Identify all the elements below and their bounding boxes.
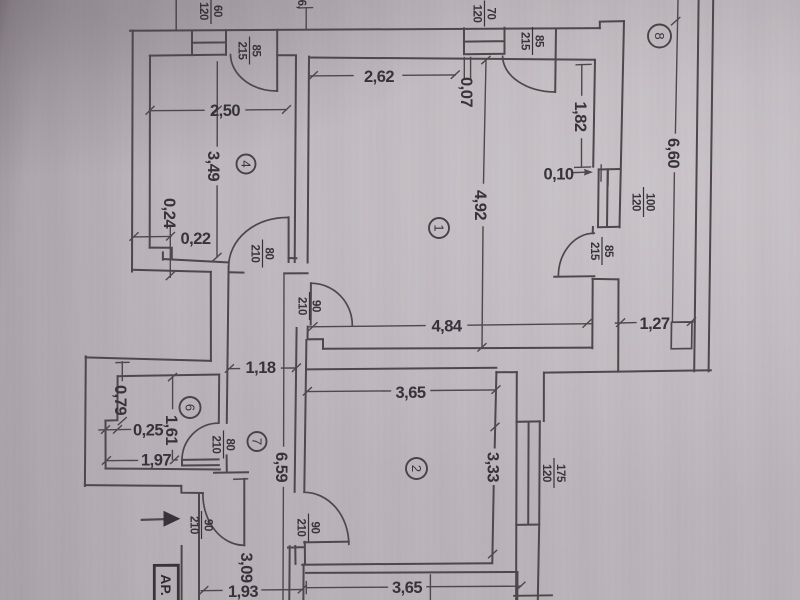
dim 6,59 extension line	[283, 274, 284, 600]
dim 2,50 end ticks	[146, 106, 291, 115]
svg-text:2,50: 2,50	[210, 102, 240, 120]
wire: room4 outer bottom wall	[132, 270, 211, 272]
wire: annex connector wall	[593, 278, 619, 280]
door D1 85/215 top-left: swing arc	[231, 55, 278, 91]
svg-text:90: 90	[202, 519, 214, 531]
wire: long balcony line B	[709, 0, 714, 371]
svg-text:1,27: 1,27	[639, 315, 669, 333]
wire: room2 east wall inner line lower	[492, 486, 493, 563]
wire: corridor east wall inner line	[295, 328, 297, 492]
wire: top-right step up	[600, 21, 624, 28]
wire: bathroom inner west step	[105, 376, 117, 468]
svg-text:120: 120	[197, 2, 209, 20]
door D8 90/210: leaf line	[304, 541, 349, 544]
wire: room 4 inner top wall	[150, 55, 226, 56]
dim 0,10 arrow	[573, 171, 589, 174]
dim 3,65 top line	[307, 390, 496, 392]
door D2 85/215: swing arc	[503, 56, 556, 92]
svg-text:1,93: 1,93	[228, 583, 258, 600]
window label 70/120	[471, 1, 497, 27]
svg-text:90: 90	[309, 522, 321, 534]
wire: room1 west wall outer line	[308, 57, 309, 263]
door label 80/210 room4	[249, 240, 275, 268]
dim 1,18 ticks	[225, 364, 300, 372]
dim 3,65 bottom line	[307, 586, 521, 588]
svg-text:2,62: 2,62	[364, 68, 394, 86]
wire: bathroom outer bottom wall	[85, 484, 181, 487]
dim 1,82 line	[581, 65, 583, 167]
dim 1,27 ticks	[617, 318, 696, 327]
svg-text:6,: 6,	[295, 0, 307, 9]
door label 90/210 room1	[296, 292, 322, 320]
svg-text:4,92: 4,92	[471, 190, 489, 220]
wire: room1 inner top face	[309, 58, 595, 60]
wire: hinge pier below bath door	[226, 455, 228, 472]
dim 3,49 ticks	[213, 106, 221, 260]
door label 85/215 east	[588, 237, 614, 265]
wire: room4 inner bottom wall	[163, 259, 229, 262]
svg-text:215: 215	[519, 32, 531, 51]
door D8 90/210 corridor-to-room2: swing arc	[304, 492, 349, 544]
wire: bottom-right corner drop	[516, 572, 518, 600]
wire: corridor top cap	[284, 272, 307, 274]
svg-text:210: 210	[249, 245, 261, 263]
room number 7 circled	[248, 432, 267, 451]
dim 3,33 ticks on room2 east wall	[489, 423, 499, 558]
wire: shaft east line / corridor west wall	[227, 266, 229, 423]
window W2 70/120 top	[464, 28, 505, 54]
dim 4,84 ticks	[309, 320, 591, 331]
wire: wall pier above window	[543, 373, 545, 421]
room number 6 circled	[180, 397, 201, 418]
window W1 60/120 top-left	[192, 30, 226, 55]
svg-text:6,60: 6,60	[664, 138, 682, 168]
node: column at balcony corner	[671, 322, 692, 349]
wire: bottom wall of right section	[544, 370, 711, 372]
wire: outer wall below window	[516, 525, 539, 600]
dim 0,25 ticks	[102, 426, 122, 434]
room number 2 circled	[406, 458, 427, 479]
wire: room1 west wall inner line	[295, 56, 296, 263]
wire: leaf-to-wall connector	[289, 257, 297, 259]
wire: room2 bottom wall outer line	[306, 571, 518, 574]
dim 1,97 line	[106, 459, 177, 462]
svg-text:175: 175	[554, 464, 566, 483]
window W4 175/120: panes	[516, 421, 540, 525]
svg-text:AP.: AP.	[158, 574, 174, 596]
dim 1,18 line	[229, 367, 296, 370]
dim 1,61 top tick	[169, 374, 177, 381]
entrance arrow shaft	[142, 518, 167, 521]
door D3 85/215 east: swing arc	[558, 233, 594, 276]
dim 6,60 tick	[672, 18, 680, 25]
dim 4,92 ticks	[478, 56, 490, 351]
door D5 80/210: swing arc	[229, 217, 289, 266]
wire: vestibule outer line lower	[181, 546, 183, 600]
wire: bathroom inner top wall	[118, 375, 220, 377]
wire: bath east wall inner line	[218, 375, 220, 423]
dim 175/120 window label underline extension	[429, 575, 431, 600]
door D2 85/215 top-right: wall pier + leaf	[554, 29, 557, 93]
door label 85/215 top-left	[236, 37, 262, 65]
wire: room2 east wall inner line upper	[495, 372, 497, 448]
svg-text:3,09: 3,09	[237, 552, 255, 582]
svg-text:85: 85	[533, 35, 545, 48]
svg-text:1,97: 1,97	[141, 452, 171, 470]
window W3 100/120 east	[598, 169, 620, 227]
dim 0,10 gap extension ticks	[601, 165, 608, 186]
svg-text:215: 215	[236, 42, 248, 61]
wire: east wall top cap	[496, 371, 516, 373]
wire: room2 bottom wall inner line	[302, 563, 492, 565]
door D7 90/210: top tick	[234, 478, 248, 481]
dim 2,50 room4 width	[150, 110, 287, 111]
dim 0,10 arrowhead	[585, 170, 592, 175]
window label 100/120	[630, 187, 656, 217]
svg-text:2: 2	[409, 465, 424, 472]
svg-text:7: 7	[250, 438, 265, 445]
dim 3,49 room4 height	[216, 62, 218, 257]
door D6 80/210 bathroom: swing arc	[182, 423, 219, 460]
door D4 90/210 room1 west: leaf	[310, 283, 312, 324]
wire: east wall stub between window and door	[592, 227, 594, 233]
window label 175/120	[540, 458, 566, 488]
svg-text:3,33: 3,33	[484, 452, 502, 482]
wire: east outer wall	[620, 21, 625, 227]
dim 2,62 room1	[310, 75, 456, 76]
door D3 85/215: leaf line	[554, 275, 594, 278]
window W4 175/120: top cap	[517, 420, 540, 422]
dim 1,93 line	[201, 590, 303, 591]
svg-text:0,10: 0,10	[543, 166, 573, 184]
dim 4,92 room1 height	[482, 60, 486, 348]
svg-text:120: 120	[471, 5, 483, 23]
room number 1 circled	[429, 218, 449, 238]
wire: long balcony line A	[694, 0, 698, 371]
wire: annex east wall	[617, 279, 619, 371]
door D5 80/210 room4 south: leaf	[288, 217, 290, 262]
svg-text:3,49: 3,49	[204, 151, 222, 181]
dim 3,65 bottom ticks	[306, 582, 525, 594]
svg-text:1: 1	[432, 224, 447, 231]
door D6 80/210: leaf shown as flat bar	[182, 459, 219, 465]
dim 0,25 line	[99, 428, 131, 431]
AP box frame	[154, 565, 178, 600]
svg-text:85: 85	[250, 45, 262, 58]
wire: bathroom inner bottom wall	[106, 469, 220, 470]
svg-text:90: 90	[310, 300, 322, 312]
wire: bottom edge wall stub	[514, 594, 552, 597]
door D1 85/215: leaf + wall pier	[276, 30, 278, 91]
svg-text:210: 210	[210, 436, 222, 454]
wire: south-west wall drop lines	[289, 546, 303, 600]
svg-text:3,65: 3,65	[392, 579, 422, 597]
wire: shaft west line down to bath wall	[210, 272, 212, 361]
door label 85/215 top-right	[519, 27, 545, 55]
svg-text:70: 70	[485, 8, 497, 20]
svg-text:120: 120	[630, 193, 642, 211]
dim 1,61 line	[171, 378, 173, 460]
svg-text:8: 8	[652, 32, 667, 39]
dim 0,79 line	[121, 362, 123, 381]
svg-text:1,18: 1,18	[245, 359, 275, 377]
wire: nook inner corner stub	[162, 252, 164, 259]
dim 0,22 vertical extension line	[169, 227, 171, 277]
wire: vestibule wall step	[181, 486, 203, 493]
wire: top outer wall	[130, 28, 600, 31]
dim 4,84 line / room1 bottom wall upper face	[308, 324, 592, 327]
svg-text:100: 100	[644, 193, 656, 211]
dim 0,79 top tick	[116, 361, 129, 363]
dim 0,22 tick	[166, 272, 174, 280]
svg-text:6: 6	[183, 404, 198, 411]
dim 1,97 ticks	[102, 456, 178, 464]
svg-text:210: 210	[188, 516, 200, 534]
wire: corridor east wall outer line	[304, 340, 306, 492]
door D7 90/210: swing arc	[203, 494, 244, 545]
svg-text:1,61: 1,61	[162, 415, 180, 445]
window label 60/120	[197, 0, 223, 24]
wire: room1 east wall inner above window	[593, 60, 595, 167]
svg-text:80: 80	[263, 248, 275, 260]
svg-text:80: 80	[224, 439, 236, 451]
wire: room2 top wall face	[306, 368, 496, 370]
door label 80/210 bathroom	[210, 431, 236, 459]
svg-text:0,07: 0,07	[457, 77, 475, 107]
svg-text:0,24: 0,24	[160, 198, 178, 229]
wire: dim extension above image edge at x176	[175, 0, 177, 30]
wire: east wall below door	[591, 279, 593, 348]
wire: outer wall inner face above window	[516, 372, 518, 422]
svg-text:120: 120	[540, 464, 552, 482]
dim 0,24 ticks	[130, 233, 175, 241]
svg-text:1,82: 1,82	[571, 101, 589, 131]
dim 3,65 top ticks	[303, 386, 500, 395]
svg-text:6,59: 6,59	[272, 452, 290, 482]
wire: pier step to room1 west wall	[277, 54, 296, 56]
wire: bathroom outer top wall	[86, 357, 211, 361]
svg-text:60: 60	[211, 5, 223, 17]
svg-text:0,25: 0,25	[133, 422, 163, 440]
svg-text:215: 215	[588, 242, 600, 261]
dim 0,79 bottom tick	[118, 418, 126, 425]
wire: corridor low cap right of bath door	[214, 471, 248, 473]
dim 1,93 ticks	[200, 586, 306, 595]
door D7 90/210 entrance: leaf	[243, 479, 245, 545]
dim 6 extension at top edge	[299, 8, 313, 30]
svg-text:210: 210	[295, 519, 307, 537]
dim 6,60 line	[672, 0, 678, 322]
dim 0,07 extension pair	[464, 58, 470, 80]
wire: left outer wall of room 4	[131, 31, 134, 272]
wire: room4 inner nook step	[150, 248, 172, 260]
wire: door jamb stubs to bottom wall	[288, 542, 305, 564]
wire: room1 bottom wall lower face	[323, 348, 592, 349]
door label 90/210 room2	[295, 514, 321, 542]
dim 1,27 line	[616, 322, 696, 323]
dim 0,24 line	[134, 235, 171, 238]
svg-text:210: 210	[296, 297, 308, 315]
wire: vestibule west wall line	[198, 493, 200, 600]
wire: outer wall bit right of door jamb	[229, 271, 244, 273]
svg-text:4,84: 4,84	[431, 318, 462, 336]
room number 8 circled	[648, 25, 671, 48]
dim 1,82 ticks	[575, 64, 591, 167]
svg-text:0,22: 0,22	[180, 230, 210, 248]
svg-text:0,79: 0,79	[111, 385, 129, 415]
entrance arrow head	[164, 511, 181, 527]
wire: room 4 inner west wall	[149, 56, 151, 248]
dim 2,62 ticks	[309, 71, 459, 79]
svg-text:4: 4	[239, 160, 254, 167]
door label 90/210 entrance	[188, 511, 214, 539]
wire: room1 bottom wall step	[308, 327, 324, 349]
svg-text:3,65: 3,65	[395, 384, 425, 402]
wire: bathroom outer west wall	[84, 356, 87, 486]
svg-text:85: 85	[602, 245, 614, 258]
room number 4 circled	[237, 155, 256, 174]
door D4 90/210: swing arc	[311, 283, 352, 325]
